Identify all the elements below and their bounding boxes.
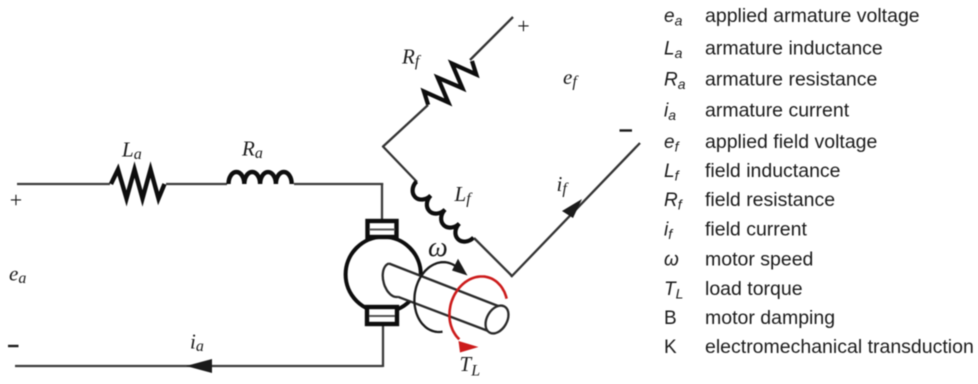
svg-text:applied field voltage: applied field voltage [705, 131, 877, 153]
svg-text:motor speed: motor speed [705, 249, 813, 271]
motor M (stator circle) [346, 237, 421, 312]
label ea [9, 262, 26, 288]
legend row K [664, 336, 974, 358]
minus terminal (armature) [8, 345, 19, 347]
inductor Lf (coil on diagonal) [408, 182, 473, 247]
svg-text:B: B [664, 308, 677, 329]
svg-text:ea: ea [9, 262, 26, 288]
wire: field bottom corner up to minus terminal [511, 143, 640, 277]
arc omega (rotation arrow) [414, 259, 467, 332]
legend row La [664, 38, 883, 62]
plus terminal (armature) [10, 188, 22, 213]
label La [121, 138, 142, 164]
plus terminal (field) [517, 14, 529, 39]
svg-text:Rf: Rf [664, 190, 684, 213]
wire: right vertical wire from bottom brush [382, 326, 384, 367]
label ef [563, 65, 579, 91]
svg-text:+: + [517, 14, 529, 39]
wire: field left lead into corner [383, 105, 429, 147]
legend row B [664, 307, 835, 329]
resistor Ra (coil symbol) [229, 172, 292, 184]
svg-text:field inductance: field inductance [705, 160, 841, 182]
svg-text:ω: ω [428, 232, 448, 263]
svg-text:ef: ef [563, 65, 579, 91]
legend row Rf [664, 189, 835, 213]
svg-text:armature inductance: armature inductance [705, 38, 883, 60]
wire: field Lf to bottom corner [474, 238, 512, 276]
motor brush bottom [367, 307, 397, 324]
wire: armature top wire left segment [17, 183, 110, 185]
svg-text:if: if [664, 220, 674, 243]
svg-text:armature resistance: armature resistance [705, 69, 877, 91]
label Rf [401, 45, 422, 71]
legend row if [664, 219, 807, 243]
svg-text:Rf: Rf [401, 45, 422, 71]
label if [557, 172, 570, 198]
inductor La (zigzag symbol) [111, 170, 165, 199]
svg-text:applied armature voltage: applied armature voltage [705, 5, 920, 27]
label ia [190, 330, 204, 356]
arc TL (load torque arrow, red) [450, 277, 507, 353]
arrow if (current direction) [562, 199, 582, 218]
wire: armature top wire right segment [294, 183, 383, 185]
legend row Lf [664, 160, 841, 184]
motor shaft end cap [481, 302, 513, 338]
svg-text:electromechanical transduction: electromechanical transduction [705, 336, 974, 358]
svg-text:ia: ia [664, 101, 676, 124]
label TL [460, 352, 481, 380]
svg-text:if: if [557, 172, 570, 198]
svg-text:La: La [121, 138, 142, 164]
svg-text:Ra: Ra [664, 70, 686, 93]
wire: field corner down to Lf [383, 146, 418, 182]
arrow ia (current direction) [186, 359, 212, 373]
svg-text:motor damping: motor damping [705, 307, 835, 329]
legend row ia [664, 100, 850, 124]
legend row Ra [664, 69, 877, 93]
svg-text:field current: field current [705, 219, 807, 241]
minus terminal (field) [620, 129, 633, 131]
legend row omega [664, 249, 813, 271]
wire: armature bottom wire [15, 365, 383, 367]
legend row ef [664, 131, 877, 155]
motor shaft (cylinder body) [383, 264, 502, 332]
svg-text:Ra: Ra [241, 137, 263, 163]
wire: right vertical wire to motor top brush [381, 183, 383, 224]
svg-text:TL: TL [460, 352, 481, 380]
svg-text:ia: ia [190, 330, 204, 356]
svg-text:Lf: Lf [664, 161, 681, 184]
svg-text:Lf: Lf [454, 182, 474, 208]
wire: field top-right lead to plus terminal [470, 17, 513, 60]
svg-text:field resistance: field resistance [705, 189, 835, 211]
svg-text:+: + [10, 188, 22, 213]
resistor Rf (zigzag on diagonal) [419, 52, 481, 114]
motor brush top [368, 221, 397, 237]
svg-text:K: K [664, 337, 677, 358]
wire: armature top wire middle segment [166, 183, 227, 185]
label omega [428, 232, 448, 263]
svg-text:load torque: load torque [705, 278, 803, 300]
svg-text:ω: ω [664, 250, 679, 271]
svg-text:ef: ef [664, 132, 681, 155]
label Ra [241, 137, 263, 163]
svg-text:armature current: armature current [705, 100, 850, 122]
legend row ea [664, 5, 920, 29]
label Lf [454, 182, 474, 208]
svg-text:La: La [664, 39, 683, 62]
legend row TL [664, 278, 803, 302]
svg-text:TL: TL [664, 279, 683, 302]
svg-text:ea: ea [664, 6, 683, 29]
